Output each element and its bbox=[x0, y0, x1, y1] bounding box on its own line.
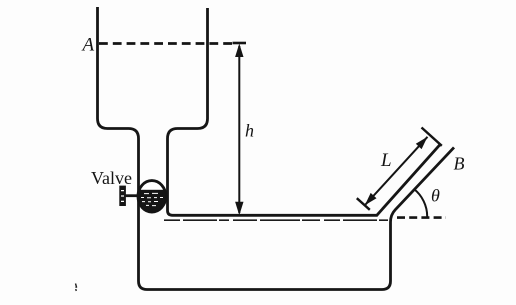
svg-text:h: h bbox=[245, 121, 254, 141]
svg-text:A: A bbox=[81, 35, 95, 56]
svg-text:Valve: Valve bbox=[91, 168, 132, 188]
svg-text:L: L bbox=[380, 150, 392, 171]
svg-text:θ: θ bbox=[431, 186, 440, 206]
svg-text:B: B bbox=[454, 154, 465, 174]
